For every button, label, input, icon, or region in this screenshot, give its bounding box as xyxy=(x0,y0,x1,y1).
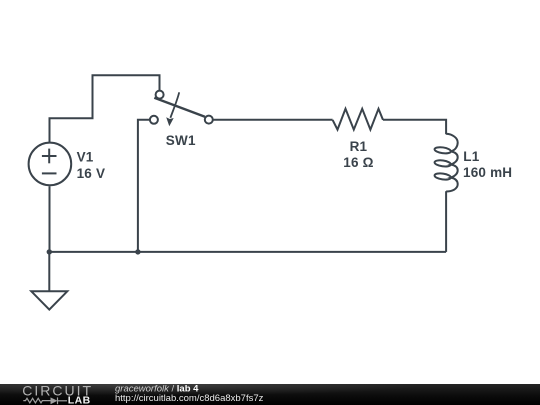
footer bar xyxy=(0,384,540,405)
wire xyxy=(49,251,446,253)
svg-text:SW1: SW1 xyxy=(166,133,196,148)
wire xyxy=(50,75,160,142)
wire xyxy=(138,120,150,252)
svg-text:16 Ω: 16 Ω xyxy=(343,155,373,170)
node junction xyxy=(47,249,52,254)
wire xyxy=(445,191,447,252)
node junction xyxy=(135,249,140,254)
svg-text:16 V: 16 V xyxy=(77,166,106,181)
voltage source V1 xyxy=(29,143,72,186)
svg-text:http://circuitlab.com/c8d6a8xb: http://circuitlab.com/c8d6a8xb7fs7z xyxy=(115,393,264,404)
svg-text:V1: V1 xyxy=(77,150,94,165)
svg-text:L1: L1 xyxy=(463,149,479,164)
wire xyxy=(383,120,446,134)
svg-text:LAB: LAB xyxy=(68,395,91,405)
wire xyxy=(213,119,333,121)
svg-text:160 mH: 160 mH xyxy=(463,165,512,180)
resistor R1 xyxy=(333,109,383,130)
switch SW1 xyxy=(150,91,213,127)
wire xyxy=(49,186,51,252)
svg-text:R1: R1 xyxy=(350,139,368,154)
ground xyxy=(31,252,67,310)
logo resistor-diode glyph xyxy=(23,397,67,404)
inductor L1 xyxy=(434,134,458,192)
